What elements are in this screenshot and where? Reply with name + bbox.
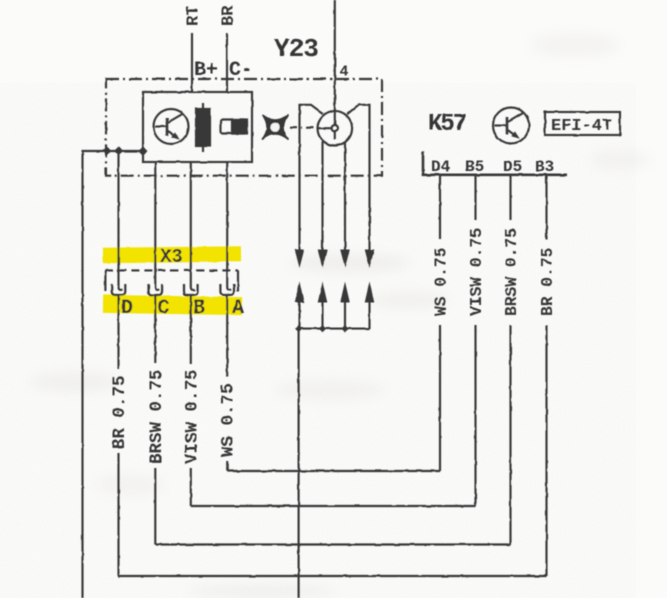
svg-text:WS 0.75: WS 0.75 <box>219 383 239 457</box>
svg-text:RT: RT <box>185 6 204 26</box>
wire VISW horizontal <box>191 505 476 507</box>
svg-text:D: D <box>121 297 133 320</box>
component boundary Y23 dash-dot box <box>106 79 382 176</box>
rotor line <box>318 127 332 129</box>
X3 pin B lower wire <box>190 295 192 364</box>
up arrows <box>300 300 370 329</box>
svg-text:BRSW 0.75: BRSW 0.75 <box>502 228 521 316</box>
svg-text:VISW 0.75: VISW 0.75 <box>467 228 486 316</box>
wire terminal 4 top <box>334 0 336 125</box>
resistor element R <box>196 103 210 152</box>
svg-text:WS 0.75: WS 0.75 <box>432 248 451 316</box>
svg-text:A: A <box>232 297 244 320</box>
X3 pin D upper wire <box>119 151 123 290</box>
svg-text:4: 4 <box>340 64 349 81</box>
K57 wire B3 <box>545 176 547 239</box>
bus bar under arrows <box>299 328 370 330</box>
wire BR <box>226 33 228 92</box>
wire valve leg 1 <box>298 176 300 252</box>
X3 pin D lower wire <box>117 295 119 369</box>
valve housing Y23 motor <box>300 105 370 176</box>
wire WS horizontal <box>227 470 440 472</box>
svg-text:K57: K57 <box>428 111 466 138</box>
X3 pin A upper wire <box>227 162 231 290</box>
svg-text:BR 0.75: BR 0.75 <box>538 248 557 316</box>
coupling star X <box>262 115 289 140</box>
socket B <box>184 284 198 295</box>
svg-text:B: B <box>193 297 205 320</box>
control unit box Y23 <box>143 92 252 162</box>
wire BRSW horizontal <box>155 543 510 545</box>
K57 wire B5 <box>474 176 476 220</box>
wire BR horizontal <box>119 575 547 577</box>
svg-text:Y23: Y23 <box>274 34 318 64</box>
wire valve leg 4 <box>368 176 370 252</box>
K57 wire D5 <box>509 176 511 220</box>
svg-text:VISW 0.75: VISW 0.75 <box>182 369 202 464</box>
svg-text:D4: D4 <box>431 158 451 176</box>
electronics symbol transistor circle U1 <box>154 109 189 144</box>
wire center to bottom <box>298 329 300 598</box>
wire valve leg 3 <box>344 143 346 252</box>
connector X3 dashed line <box>105 269 238 271</box>
svg-text:C: C <box>158 297 170 320</box>
junction dots bus <box>295 325 349 332</box>
svg-text:C-: C- <box>229 59 253 82</box>
X3 pin A lower wire <box>226 295 228 377</box>
svg-text:B3: B3 <box>535 158 554 176</box>
K57 electronics symbol circle <box>493 108 529 144</box>
X3 pin C upper wire <box>155 162 159 290</box>
svg-text:D5: D5 <box>503 158 522 176</box>
K57 terminal bar <box>423 151 567 174</box>
junction dots left <box>103 147 148 156</box>
plug icon <box>221 120 248 134</box>
socket A <box>220 284 234 295</box>
wire valve leg 2 <box>321 141 323 252</box>
X3 pin C lower wire <box>154 295 156 363</box>
wire left rail <box>83 151 144 598</box>
wire RT <box>191 33 193 92</box>
svg-text:EFI-4T: EFI-4T <box>551 117 612 136</box>
svg-text:B5: B5 <box>465 158 484 176</box>
connector X3 left bracket <box>104 270 106 291</box>
socket C <box>149 284 163 295</box>
svg-text:BRSW 0.75: BRSW 0.75 <box>147 369 167 464</box>
dash-dot link to valve <box>290 127 316 129</box>
svg-text:BR 0.75: BR 0.75 <box>110 375 130 449</box>
X3 pin B upper wire <box>191 162 195 290</box>
highlight band DCBA <box>103 295 242 315</box>
socket D <box>112 284 126 295</box>
svg-text:X3: X3 <box>160 246 183 268</box>
highlight band X3 <box>103 246 241 263</box>
rotor center <box>332 125 338 131</box>
connector X3 right bracket <box>237 270 239 291</box>
down arrowheads <box>295 250 375 269</box>
svg-text:BR: BR <box>220 5 239 26</box>
EFI-4T box <box>545 112 620 135</box>
svg-text:B+: B+ <box>194 59 218 82</box>
K57 wire D4 <box>439 176 441 239</box>
valve rotor circle <box>318 111 353 146</box>
